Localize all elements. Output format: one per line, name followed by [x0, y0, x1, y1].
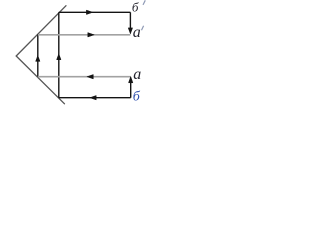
- svg-text:a: a: [133, 66, 141, 83]
- wire H3 gray horizontal from a: [38, 76, 131, 78]
- wire H1 horizontal to b': [59, 11, 131, 13]
- wire H2 gray horizontal to a': [38, 34, 131, 36]
- arrow down on V3: [128, 28, 132, 34]
- wire V2 vertical: [58, 12, 60, 97]
- arrow up on V1: [36, 55, 40, 61]
- arrow up on V2: [57, 54, 61, 60]
- prime of a': [142, 26, 144, 30]
- prime of b': [143, 0, 145, 5]
- wire V3 vertical drop at b': [129, 12, 131, 30]
- arrow left on H3: [87, 75, 93, 79]
- arrow left on H4: [90, 96, 96, 100]
- arrow up on V4: [129, 77, 133, 83]
- wire V1 vertical: [37, 34, 39, 77]
- arrow right on H2: [88, 33, 94, 37]
- wire V4 vertical rise at a: [130, 80, 132, 97]
- svg-text:б: б: [133, 90, 141, 105]
- arrow right on H1: [86, 10, 92, 14]
- svg-text:a: a: [133, 24, 141, 41]
- wire H4 horizontal from b: [59, 97, 131, 99]
- mirror chevron lower diagonal: [16, 56, 64, 104]
- mirror chevron upper diagonal: [16, 6, 66, 56]
- svg-text:б: б: [132, 0, 139, 15]
